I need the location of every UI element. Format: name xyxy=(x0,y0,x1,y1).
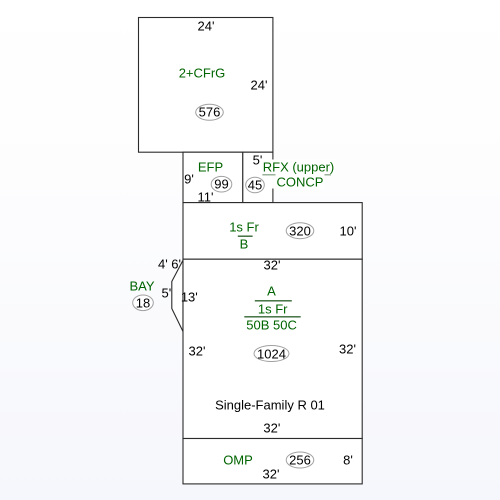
area 45 xyxy=(248,178,262,193)
main house box xyxy=(183,259,362,438)
label A xyxy=(267,284,276,299)
garage box 2+CFrG xyxy=(139,18,273,153)
green rule under 1s Fr (main) xyxy=(244,316,300,318)
ellipse 256 xyxy=(286,452,314,468)
RFX upper box xyxy=(243,152,273,202)
1s Fr B box xyxy=(183,203,362,260)
area 99 xyxy=(214,177,228,192)
label Single-Family R 01 xyxy=(215,397,325,412)
EFP box xyxy=(183,152,243,202)
bay window polygon xyxy=(172,260,183,331)
ellipse 1024 xyxy=(254,346,289,362)
ellipse 45 xyxy=(246,177,265,193)
label OMP xyxy=(223,453,253,468)
dim 24' top xyxy=(198,18,215,33)
dim 32' omp xyxy=(263,467,280,482)
dim 32' upper xyxy=(264,258,281,273)
area 576 xyxy=(199,105,221,120)
ellipse 320 xyxy=(286,223,314,239)
dim 4' 6' xyxy=(158,257,181,272)
area 320 xyxy=(289,223,311,238)
dim 9' xyxy=(184,171,194,186)
dim 8' xyxy=(343,453,353,468)
area 1024 xyxy=(257,346,286,361)
label RFX (upper) xyxy=(262,159,336,174)
dim 32' left xyxy=(189,343,206,358)
dim 24' right xyxy=(251,77,268,92)
label CONCP xyxy=(276,175,325,190)
dim 5' bay xyxy=(162,285,172,300)
OMP box xyxy=(183,439,362,484)
green rule under RFX (upper) xyxy=(262,174,331,176)
label EFP xyxy=(198,160,223,175)
ellipse 99 xyxy=(211,176,232,192)
white mask over RFX box border behind labels xyxy=(269,161,278,189)
green rule under 1s Fr (B box) xyxy=(238,235,253,237)
dim 11' xyxy=(198,189,214,204)
green rule under A xyxy=(255,300,292,302)
ellipse 18 xyxy=(133,295,154,311)
area 256 xyxy=(289,453,311,468)
dim 10' xyxy=(340,223,357,238)
dim 32' bottom main xyxy=(263,421,280,436)
dim 32' right xyxy=(339,342,356,357)
label B xyxy=(240,236,249,251)
ellipse 576 xyxy=(196,104,224,120)
area 18 xyxy=(136,295,150,310)
label BAY xyxy=(129,279,154,294)
label 1s Fr (main) xyxy=(258,302,288,317)
label 50B 50C xyxy=(246,317,297,332)
label 2+CFrG xyxy=(179,65,226,80)
label 1s Fr (B box) xyxy=(229,220,259,235)
dim 5' rfx xyxy=(253,153,263,168)
dim 13' xyxy=(181,289,198,304)
